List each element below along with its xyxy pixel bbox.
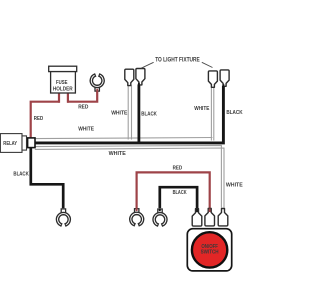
svg-text:RED: RED	[78, 105, 88, 111]
svg-text:RED: RED	[34, 116, 43, 122]
on/off switch red button	[192, 232, 227, 267]
wire: black bottom loop from fork to switch terminal	[160, 187, 197, 208]
fixture terminal T1 white	[125, 69, 134, 85]
svg-text:BLACK: BLACK	[173, 190, 187, 196]
switch terminal S2 red	[205, 209, 215, 226]
bottom fork terminal red	[130, 209, 144, 226]
svg-text:WHITE: WHITE	[109, 151, 126, 157]
wire stub red into fork F3 stem	[136, 208, 138, 211]
wire stub red into S2 stem	[209, 209, 211, 213]
wire: red horizontal right branch to fork terminal	[67, 92, 97, 102]
wire: white bundle top gray line	[35, 138, 213, 139]
wire: white tube lower line B with corner down to switch	[35, 148, 224, 208]
fixture terminal T2 black	[136, 69, 145, 85]
svg-text:RED: RED	[173, 165, 183, 171]
wire: white vertical fixture pair 1	[127, 85, 129, 139]
bottom fork terminal black	[153, 209, 167, 226]
fuse holder	[49, 66, 77, 71]
wire: red bottom loop from fork to switch terminal	[137, 172, 210, 208]
svg-text:WHITE: WHITE	[78, 126, 94, 132]
wire: black vertical fixture pair 1	[137, 84, 140, 143]
wire stub black into T2 stem	[138, 83, 140, 87]
relay box	[0, 134, 22, 153]
wire: black bundle horizontal with corner up to fixture pair 2	[35, 86, 224, 143]
wire: white vertical fixture pair 2	[210, 87, 212, 141]
svg-text:BLACK: BLACK	[13, 171, 28, 177]
wire stub black into S1 stem	[196, 209, 198, 213]
svg-text:FUSE: FUSE	[56, 80, 68, 86]
svg-text:SWITCH: SWITCH	[201, 250, 219, 256]
wire: red fuse pin left	[58, 93, 60, 103]
svg-text:RELAY: RELAY	[3, 141, 17, 147]
svg-text:BLACK: BLACK	[226, 110, 242, 116]
wire stub black into T4 stem	[222, 84, 224, 88]
switch terminal S3 white	[218, 209, 228, 226]
svg-text:WHITE: WHITE	[194, 106, 210, 112]
wire: white tube lower line A with corner down to switch	[35, 145, 222, 207]
switch terminal S1 black	[192, 209, 202, 226]
fork terminal top (ring opening up)	[90, 74, 104, 91]
wire: red fuse pin right	[67, 93, 69, 103]
fixture terminal T3 white	[208, 71, 217, 87]
svg-text:WHITE: WHITE	[111, 110, 127, 116]
svg-text:HOLDER: HOLDER	[53, 86, 73, 92]
wire stub black into fork F4 stem	[159, 208, 161, 211]
svg-text:BLACK: BLACK	[141, 111, 157, 117]
wire: black from relay down to bottom-left fork	[31, 147, 63, 208]
svg-text:WHITE: WHITE	[226, 183, 243, 189]
svg-text:TO LIGHT FIXTURE: TO LIGHT FIXTURE	[155, 57, 200, 63]
wire: red horizontal left branch	[31, 102, 60, 138]
fixture terminal T4 black	[220, 70, 229, 86]
bottom-left fork terminal (black from relay)	[56, 209, 70, 226]
wire stub red into fork F1 stem	[96, 89, 98, 93]
on/off switch body	[187, 229, 231, 271]
